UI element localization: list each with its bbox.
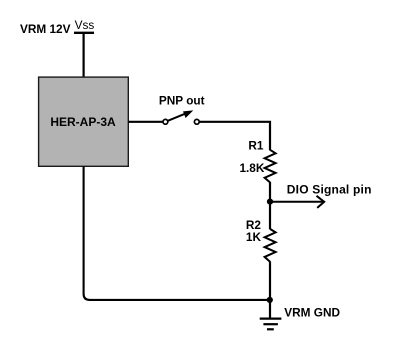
svg-text:R1: R1 [248,138,264,152]
svg-text:1.8K: 1.8K [239,161,264,175]
svg-text:1K: 1K [246,230,262,244]
svg-text:VRM 12V: VRM 12V [20,22,71,36]
svg-text:DIO Signal pin: DIO Signal pin [287,182,372,196]
svg-text:HER-AP-3A: HER-AP-3A [50,115,116,129]
svg-text:PNP out: PNP out [159,94,205,108]
svg-text:Vss: Vss [75,18,95,32]
svg-text:VRM GND: VRM GND [284,306,340,320]
